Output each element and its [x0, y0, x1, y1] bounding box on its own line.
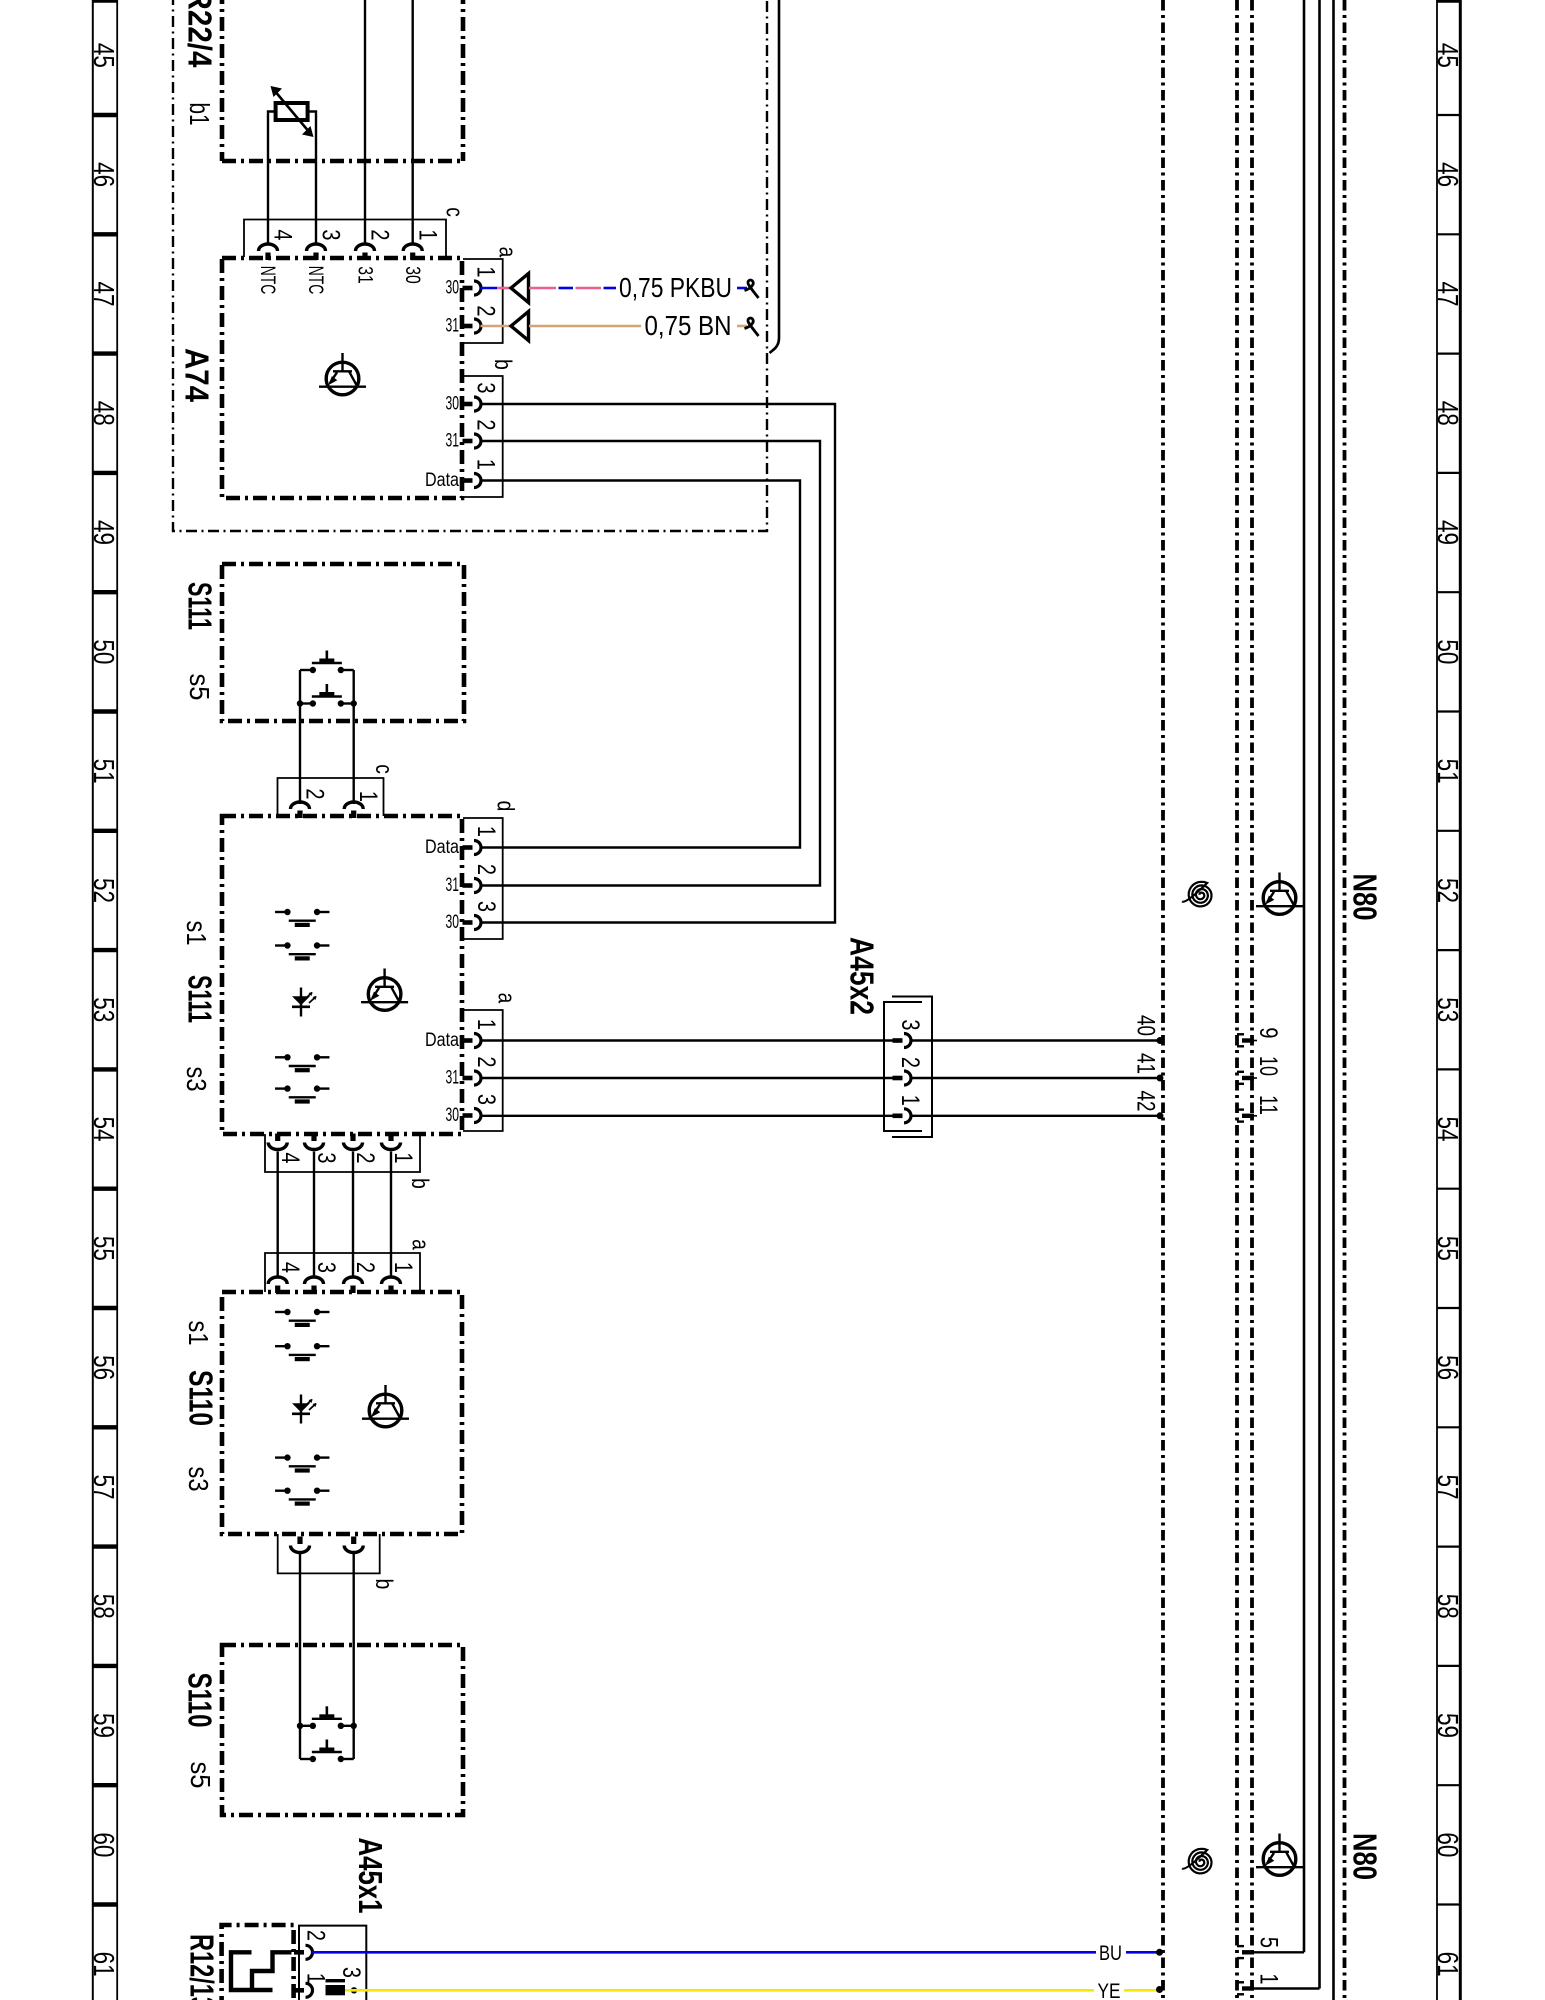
junction dot 40 — [1157, 1037, 1164, 1044]
N80 inner connector rail left — [1235, 0, 1239, 2000]
svg-text:30: 30 — [401, 266, 424, 284]
shield spiral lower — [1182, 1849, 1212, 1874]
svg-text:30: 30 — [446, 1105, 460, 1126]
component box S110 — [222, 1292, 462, 1534]
svg-text:3: 3 — [338, 1967, 366, 1978]
component box S111 (s5 switch) — [222, 564, 464, 721]
connector A45x1 housing — [299, 1926, 366, 2000]
wire BN middle section — [529, 325, 641, 328]
button s1b in S110 — [275, 1343, 329, 1361]
svg-text:a: a — [494, 247, 522, 258]
svg-text:1: 1 — [897, 1095, 925, 1106]
svg-text:3: 3 — [317, 229, 345, 240]
N80 inner connector rail right — [1250, 0, 1254, 2000]
wire YE end segment — [1124, 1989, 1157, 1992]
pin 4 of S111 b — [268, 1134, 287, 1150]
svg-text:2: 2 — [366, 229, 394, 240]
push button s5 lower contact (S110) — [300, 1740, 354, 1763]
arrow on BN wire — [511, 312, 529, 341]
wire PKBU end segment — [737, 287, 747, 290]
svg-text:45: 45 — [87, 43, 119, 68]
wire S111 b to S110 a at x277.7 — [277, 1152, 279, 1277]
svg-text:42: 42 — [1132, 1091, 1160, 1112]
junction dot on YE wire — [351, 1987, 357, 1993]
lamp symbol in N80 lower — [1256, 1834, 1303, 1876]
svg-text:45: 45 — [1431, 43, 1463, 68]
svg-text:31: 31 — [354, 266, 377, 284]
svg-text:50: 50 — [1431, 639, 1463, 664]
svg-text:55: 55 — [87, 1236, 119, 1261]
svg-text:S110: S110 — [181, 1673, 218, 1728]
junction dot YE at N80 — [1156, 1986, 1163, 1993]
button s1a in S111 — [275, 909, 329, 927]
svg-text:BU: BU — [1099, 1942, 1122, 1965]
svg-text:61: 61 — [87, 1952, 119, 1977]
svg-text:1: 1 — [390, 1262, 418, 1273]
connector bracket a on S110 — [265, 1253, 420, 1292]
svg-text:3: 3 — [473, 1094, 501, 1105]
svg-text:s1: s1 — [183, 1321, 214, 1346]
connector bracket d on S111 — [463, 818, 503, 939]
svg-text:N80: N80 — [1346, 1833, 1383, 1880]
svg-text:56: 56 — [87, 1355, 119, 1380]
svg-text:31: 31 — [446, 875, 460, 896]
svg-text:S111: S111 — [181, 582, 218, 630]
svg-text:49: 49 — [1431, 520, 1463, 545]
wire BU from A45x1 pin2 — [312, 1951, 1097, 1954]
svg-text:47: 47 — [1431, 281, 1463, 306]
svg-text:2: 2 — [472, 305, 500, 316]
svg-text:30: 30 — [446, 394, 460, 415]
svg-text:3: 3 — [473, 901, 501, 912]
harness boundary line with jog — [770, 0, 780, 353]
inline connector 3 on YE wire — [326, 1979, 346, 1995]
wire from top to pin 1 — [412, 0, 414, 246]
svg-text:57: 57 — [87, 1474, 119, 1499]
svg-text:3: 3 — [313, 1152, 341, 1163]
connector A45x2 housing — [884, 997, 932, 1138]
wire A45x2 pin2 to N80 pin41 — [910, 1077, 1160, 1079]
junction dot 41 — [1157, 1075, 1164, 1082]
svg-text:53: 53 — [87, 997, 119, 1022]
pin 2 of S111 c — [291, 802, 310, 818]
pin 3 of S110 a — [305, 1277, 324, 1293]
svg-text:YE: YE — [1098, 1980, 1121, 2000]
svg-text:R12/13: R12/13 — [183, 1934, 220, 2000]
switch s5 right rail — [353, 670, 355, 804]
left ruler column — [93, 0, 117, 2000]
right ruler column — [1437, 0, 1460, 2000]
pin 3 of S111 b — [305, 1134, 324, 1150]
svg-text:N80: N80 — [1346, 874, 1383, 921]
svg-text:S110: S110 — [182, 1370, 219, 1426]
svg-text:3: 3 — [897, 1019, 925, 1030]
svg-text:b: b — [406, 1178, 434, 1189]
wire A74 b31 to S111 d31 — [481, 441, 821, 886]
wire thermistor right lead to pin 3 — [308, 112, 316, 246]
svg-text:10: 10 — [1254, 1056, 1282, 1076]
svg-text:1: 1 — [473, 1019, 501, 1030]
lamp symbol in S111 — [361, 969, 408, 1011]
N80 connector pin 9 — [1237, 1033, 1257, 1047]
pin 1 of S111 b — [382, 1134, 401, 1150]
switch s5 left rail — [299, 670, 301, 804]
svg-text:4: 4 — [276, 1262, 304, 1273]
N80 connector pin 5 — [1237, 1945, 1257, 1959]
button s3b in S111 — [275, 1085, 329, 1103]
junction dot 42 — [1157, 1112, 1164, 1119]
control unit N80 left border — [1161, 0, 1165, 2000]
svg-text:NTC: NTC — [256, 266, 279, 295]
svg-text:b: b — [489, 359, 517, 370]
wire A74 bData to S111 dData — [481, 481, 801, 848]
svg-text:2: 2 — [302, 1930, 330, 1941]
pin right of S110 b — [344, 1537, 363, 1553]
button s3b in S110 — [275, 1488, 329, 1506]
pin 1 (Data) of S111 a — [463, 1034, 482, 1048]
svg-text:50: 50 — [87, 639, 119, 664]
heater element in R12/13 — [231, 1952, 292, 1990]
wire A45x2 pin1 to N80 pin42 — [910, 1115, 1160, 1117]
wire 0,75 PKBU from pin 30 — [481, 287, 529, 290]
svg-text:A45x1: A45x1 — [352, 1838, 389, 1914]
wire thermistor left lead to pin 4 — [268, 112, 276, 246]
component box R12/13 — [222, 1925, 294, 2000]
svg-text:56: 56 — [1431, 1355, 1463, 1380]
svg-text:47: 47 — [87, 281, 119, 306]
svg-text:c: c — [370, 764, 398, 774]
svg-text:46: 46 — [87, 162, 119, 187]
wire from top to pin 2 — [364, 0, 366, 246]
wire S111 b to S110 a at x353 — [352, 1152, 354, 1277]
component box R22/4 — [222, 0, 463, 161]
N80 connector pin 10 — [1237, 1071, 1257, 1085]
svg-text:1: 1 — [472, 266, 500, 277]
svg-text:s3: s3 — [181, 1067, 212, 1092]
svg-text:54: 54 — [87, 1117, 119, 1142]
wire S111 a3 to A45x2 pin1 — [481, 1115, 897, 1117]
connector bracket c on A74 — [244, 220, 446, 258]
shield spiral upper — [1182, 882, 1212, 907]
wire S110 b right to s5 — [353, 1554, 355, 1759]
wire S111 a1 to A45x2 pin3 — [481, 1039, 897, 1041]
svg-text:4: 4 — [276, 1152, 304, 1163]
svg-text:0,75 PKBU: 0,75 PKBU — [619, 272, 732, 303]
connector bracket b on A74 — [463, 376, 503, 497]
svg-text:s5: s5 — [184, 674, 215, 701]
svg-text:A45x2: A45x2 — [843, 937, 880, 1015]
svg-text:30: 30 — [446, 912, 460, 933]
svg-text:3: 3 — [472, 382, 500, 393]
component box S111 — [222, 816, 462, 1134]
svg-text:s3: s3 — [183, 1467, 214, 1492]
wire BN continuation curl — [745, 318, 759, 336]
svg-text:52: 52 — [87, 878, 119, 903]
svg-text:58: 58 — [1431, 1594, 1463, 1619]
svg-text:a: a — [493, 993, 521, 1004]
svg-text:2: 2 — [352, 1152, 380, 1163]
wire BU end segment — [1126, 1951, 1157, 1954]
svg-text:1: 1 — [390, 1152, 418, 1163]
svg-text:2: 2 — [897, 1057, 925, 1068]
pin 2 (31) of A74 b — [463, 434, 481, 448]
pin 3 of A45x2 — [893, 1034, 912, 1048]
svg-text:S111: S111 — [181, 975, 218, 1023]
svg-text:51: 51 — [1431, 759, 1463, 784]
pin 1 of S110 a — [382, 1277, 401, 1293]
wire S110 b left to s5 — [299, 1554, 301, 1759]
bus line C — [1332, 0, 1335, 2000]
wire PKBU continuation curl — [745, 280, 759, 298]
connector bracket a on S111 — [463, 1010, 503, 1131]
wire S111 b to S110 a at x314 — [313, 1152, 315, 1277]
pin left of S110 b — [291, 1537, 310, 1553]
pin 2 of S111 b — [344, 1134, 363, 1150]
button s3a in S111 — [275, 1054, 329, 1072]
svg-text:1: 1 — [414, 229, 442, 240]
wire S111 b to S110 a at x391 — [390, 1152, 392, 1277]
wire A45x2 pin3 to N80 pin40 — [910, 1039, 1160, 1041]
connector bracket b on S110 bottom — [278, 1534, 380, 1573]
svg-text:40: 40 — [1132, 1015, 1160, 1036]
svg-text:NTC: NTC — [304, 266, 327, 295]
svg-text:a: a — [407, 1239, 435, 1250]
svg-text:R22/4: R22/4 — [181, 0, 218, 68]
svg-text:0,75 BN: 0,75 BN — [645, 310, 732, 341]
lamp symbol in S110 — [362, 1385, 409, 1427]
pin 3 (30) of S111 d — [463, 916, 482, 930]
component box A74 — [222, 258, 462, 498]
svg-text:58: 58 — [87, 1594, 119, 1619]
LED in S111 — [292, 988, 317, 1017]
svg-text:5: 5 — [1255, 1937, 1283, 1948]
lamp symbol in N80 upper — [1256, 873, 1303, 915]
svg-text:c: c — [441, 207, 469, 217]
push button s5 lower contact — [297, 684, 357, 707]
pin 3 (30) of S111 a — [463, 1109, 482, 1123]
pin 1 (Data) of S111 d — [463, 841, 482, 855]
svg-text:30: 30 — [446, 278, 460, 299]
wire S111 a2 to A45x2 pin2 — [481, 1077, 897, 1079]
svg-text:55: 55 — [1431, 1236, 1463, 1261]
svg-text:b1: b1 — [184, 103, 215, 126]
svg-text:59: 59 — [87, 1713, 119, 1738]
N80 right border — [1343, 0, 1347, 2000]
N80 connector pin 11 — [1237, 1108, 1257, 1122]
svg-text:b: b — [370, 1579, 398, 1590]
svg-text:2: 2 — [473, 864, 501, 875]
pin 1 of connector c — [403, 244, 422, 260]
svg-text:54: 54 — [1431, 1117, 1463, 1142]
svg-text:49: 49 — [87, 520, 119, 545]
button s3a in S110 — [275, 1454, 329, 1472]
svg-text:2: 2 — [472, 419, 500, 430]
wire N80 pin1 to bus B — [1254, 1987, 1320, 1989]
push button s5 upper contact — [300, 651, 354, 674]
pin 2 (31) of A74 a — [463, 319, 482, 333]
wire 0,75 BN from pin 31 — [481, 325, 530, 328]
pin 2 of connector c — [356, 244, 375, 260]
svg-text:A74: A74 — [178, 348, 215, 403]
lamp symbol in A74 — [319, 353, 366, 395]
svg-text:4: 4 — [269, 229, 297, 240]
svg-text:Data: Data — [425, 1030, 459, 1051]
svg-text:s5: s5 — [185, 1762, 216, 1789]
svg-text:11: 11 — [1254, 1095, 1282, 1115]
outer group box border — [173, 0, 767, 531]
pin 2 (31) of S111 a — [463, 1071, 482, 1085]
connector bracket c on S111 — [278, 778, 384, 816]
svg-text:31: 31 — [446, 431, 460, 452]
svg-text:1: 1 — [473, 826, 501, 837]
pin 4 of S110 a — [268, 1277, 287, 1293]
svg-text:31: 31 — [446, 1068, 460, 1089]
connector bracket a on A74 — [463, 259, 503, 343]
bus line B — [1318, 0, 1321, 1989]
pin 2 of S110 a — [344, 1277, 363, 1293]
arrow on PKBU wire — [511, 274, 529, 303]
svg-text:9: 9 — [1255, 1027, 1283, 1038]
svg-text:60: 60 — [1431, 1832, 1463, 1857]
pin 2 of A45x2 — [893, 1071, 912, 1085]
pin 3 (30) of A74 b — [463, 397, 482, 411]
pin 1 of A45x2 — [893, 1109, 912, 1123]
svg-text:59: 59 — [1431, 1713, 1463, 1738]
push button s5 upper contact (S110) — [297, 1706, 357, 1729]
svg-text:52: 52 — [1431, 878, 1463, 903]
svg-text:1: 1 — [472, 459, 500, 470]
svg-text:41: 41 — [1132, 1053, 1160, 1074]
pin 4 of connector c — [259, 244, 278, 260]
svg-text:53: 53 — [1431, 997, 1463, 1022]
button s1a in S110 — [275, 1309, 329, 1327]
pin 1 of A45x1 — [294, 1983, 313, 1997]
pin 1 (30) of A74 a — [463, 281, 482, 295]
svg-text:1: 1 — [355, 791, 383, 802]
junction dot BU at N80 — [1156, 1949, 1163, 1956]
wire YE from inline connector — [345, 1989, 1094, 1992]
svg-text:Data: Data — [425, 470, 459, 491]
pin 2 (31) of S111 d — [463, 879, 482, 893]
bus line A — [1303, 0, 1306, 1952]
wire BN end segment — [737, 325, 747, 328]
LED in S110 — [292, 1395, 317, 1424]
N80 connector pin 1 — [1237, 1981, 1257, 1995]
pin 3 of connector c — [307, 244, 326, 260]
wire PKBU dashed section — [529, 287, 616, 290]
component box S110 (s5 switch) — [222, 1645, 463, 1815]
svg-text:1: 1 — [1255, 1973, 1283, 1984]
thermistor b1 in R22/4 — [271, 86, 314, 137]
svg-text:Data: Data — [425, 837, 459, 858]
pin 1 of S111 c — [344, 802, 363, 818]
svg-text:60: 60 — [87, 1832, 119, 1857]
svg-text:51: 51 — [87, 759, 119, 784]
button s1b in S111 — [275, 942, 329, 960]
svg-text:57: 57 — [1431, 1474, 1463, 1499]
svg-text:48: 48 — [1431, 401, 1463, 426]
wire A74 b30 to S111 d30 — [481, 404, 836, 923]
svg-text:31: 31 — [446, 316, 460, 337]
pin 2 of A45x1 — [294, 1945, 313, 1959]
svg-text:3: 3 — [313, 1262, 341, 1273]
svg-text:2: 2 — [301, 788, 329, 799]
svg-text:2: 2 — [473, 1056, 501, 1067]
svg-text:d: d — [492, 801, 520, 812]
svg-text:s1: s1 — [181, 921, 212, 946]
svg-text:2: 2 — [352, 1262, 380, 1273]
wire N80 pin5 to bus A — [1254, 1951, 1304, 1953]
svg-text:46: 46 — [1431, 162, 1463, 187]
pin 1 (Data) of A74 b — [463, 474, 482, 488]
connector bracket b on S111 bottom — [265, 1134, 420, 1172]
svg-text:48: 48 — [87, 401, 119, 426]
svg-text:61: 61 — [1431, 1952, 1463, 1977]
